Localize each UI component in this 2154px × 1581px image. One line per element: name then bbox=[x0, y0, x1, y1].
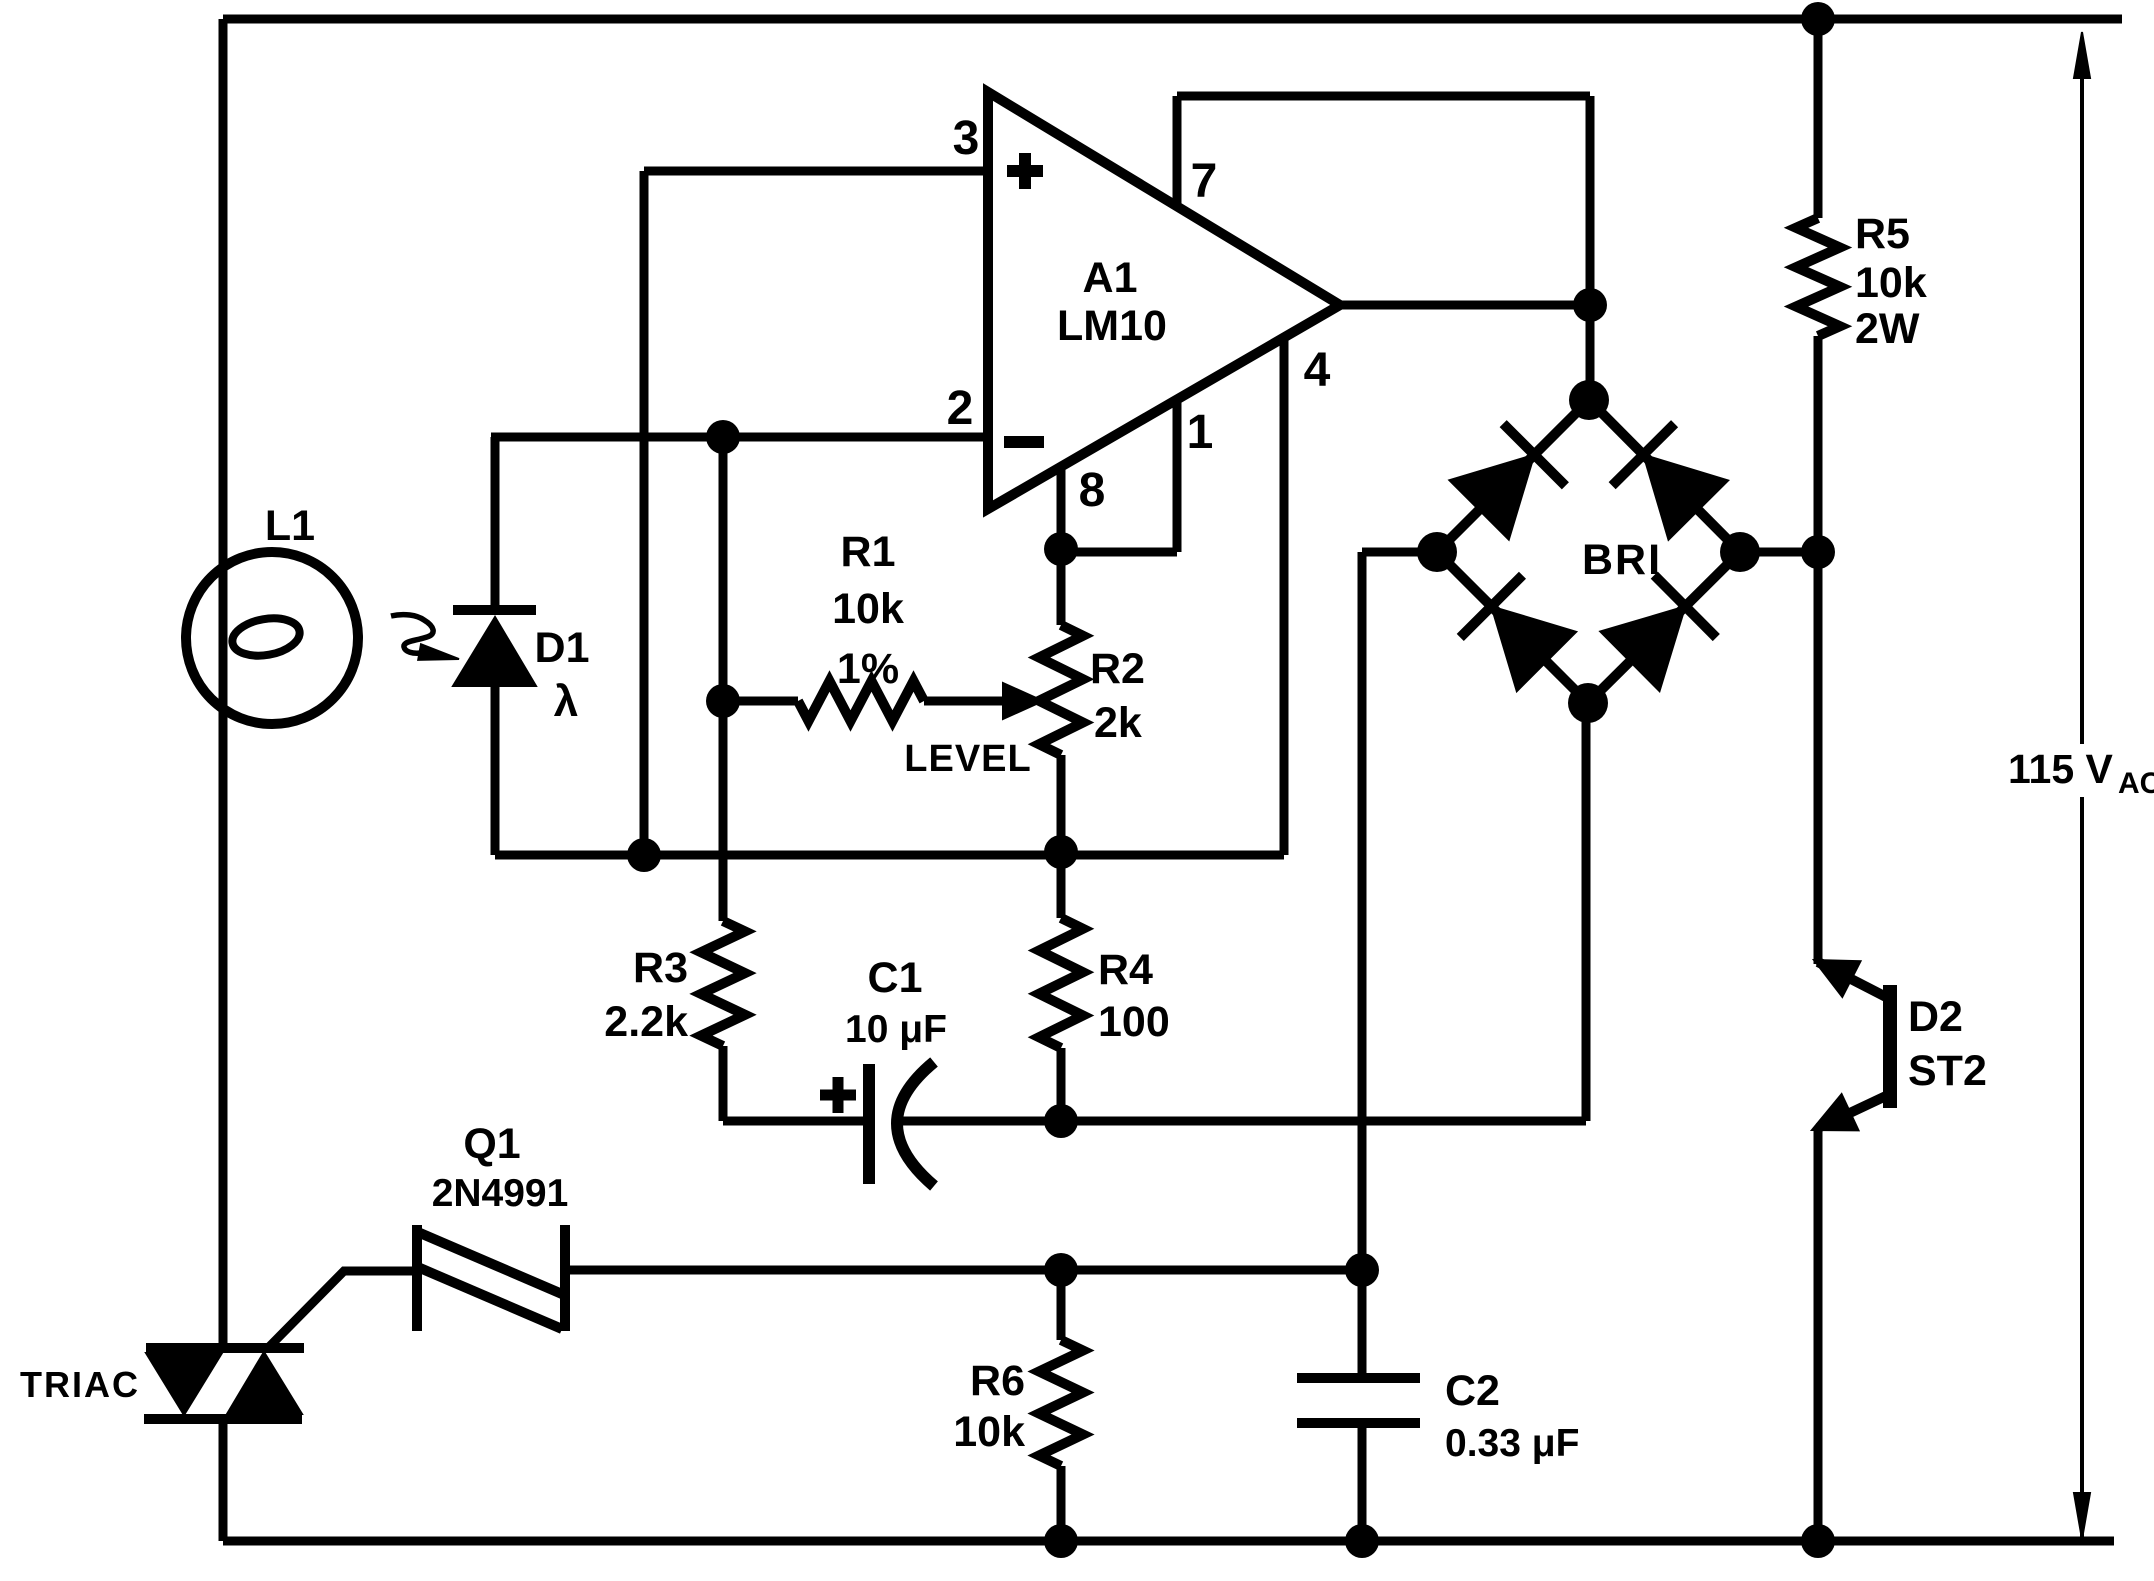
dimension line 115VAC lower bbox=[2074, 797, 2090, 1539]
svg-text:AC: AC bbox=[2118, 767, 2154, 800]
wire feedback right edge bbox=[1586, 96, 1595, 305]
wire D1 bottom lead bbox=[491, 686, 500, 855]
label R2 bbox=[1090, 645, 1145, 693]
op-amp plus input marker bbox=[1007, 153, 1043, 189]
svg-text:R3: R3 bbox=[633, 944, 688, 992]
node bridge/R5 junction bbox=[1801, 535, 1835, 569]
svg-text:λ: λ bbox=[554, 677, 578, 726]
label BRI bbox=[1582, 536, 1662, 584]
wire R5 to D2 bbox=[1814, 552, 1823, 964]
label pin 1 bbox=[1187, 406, 1214, 459]
wire bridge left to C2 column bbox=[1362, 552, 1437, 1270]
svg-text:7: 7 bbox=[1191, 155, 1218, 208]
label D1 bbox=[535, 624, 590, 672]
svg-text:LM10: LM10 bbox=[1057, 302, 1167, 350]
svg-text:100: 100 bbox=[1098, 998, 1170, 1046]
label R3 bbox=[633, 944, 688, 992]
svg-text:LEVEL: LEVEL bbox=[904, 738, 1031, 780]
svg-text:0.33 μF: 0.33 μF bbox=[1445, 1422, 1579, 1465]
resistor R6 bbox=[1039, 1270, 1083, 1541]
node gate/C2 junction bbox=[1345, 1253, 1379, 1287]
node top rail / R5 junction bbox=[1801, 2, 1835, 36]
resistor R5 bbox=[1796, 19, 1840, 552]
svg-text:A1: A1 bbox=[1083, 254, 1138, 302]
wire bridge right to R5 column bbox=[1740, 548, 1818, 557]
resistor R4 bbox=[1039, 852, 1083, 1121]
label Q1 bbox=[463, 1120, 520, 1168]
node R6 bottom rail junction bbox=[1044, 1524, 1078, 1558]
label pin 4 bbox=[1304, 344, 1331, 397]
label C1 value 10uF bbox=[845, 1008, 947, 1051]
label R5 power 2W bbox=[1855, 305, 1920, 353]
svg-text:R1: R1 bbox=[841, 528, 896, 576]
dimension line 115VAC upper bbox=[2074, 32, 2090, 744]
svg-text:R6: R6 bbox=[970, 1357, 1025, 1405]
svg-text:D2: D2 bbox=[1908, 993, 1963, 1041]
wire pin 8 stub bbox=[1057, 467, 1066, 549]
lamp L1 bbox=[186, 552, 358, 724]
switch D2 ST2 bbox=[1812, 960, 1897, 1130]
photodiode D1 bbox=[453, 610, 536, 686]
wire pin 3 vertical drop bbox=[640, 171, 649, 855]
svg-text:1%: 1% bbox=[837, 645, 899, 693]
label R2 value 2k bbox=[1094, 699, 1142, 747]
label D2 bbox=[1908, 993, 1963, 1041]
label R4 value 100 bbox=[1098, 998, 1170, 1046]
label TRIAC bbox=[20, 1364, 140, 1405]
svg-text:10k: 10k bbox=[953, 1408, 1025, 1456]
svg-text:R5: R5 bbox=[1855, 210, 1910, 258]
label R6 bbox=[970, 1357, 1025, 1405]
label pin 7 bbox=[1191, 155, 1218, 208]
svg-text:L1: L1 bbox=[265, 502, 315, 550]
label LM10 bbox=[1057, 302, 1167, 350]
node bridge left vertex bbox=[1417, 532, 1457, 572]
node C1/R4 junction bbox=[1044, 1104, 1078, 1138]
wire pin 7 stub bbox=[1173, 96, 1182, 206]
label R1 bbox=[841, 528, 896, 576]
wire R1 wiper lead bbox=[924, 697, 1014, 706]
svg-text:C1: C1 bbox=[868, 954, 923, 1002]
svg-text:C2: C2 bbox=[1445, 1367, 1500, 1415]
label lambda bbox=[554, 677, 578, 726]
wire pin 3 horizontal bbox=[644, 167, 990, 176]
label R5 bbox=[1855, 210, 1910, 258]
label D2 type ST2 bbox=[1908, 1047, 1987, 1095]
wire C1 right lead bbox=[903, 1117, 1061, 1126]
svg-text:10k: 10k bbox=[832, 585, 904, 633]
node R6 top junction bbox=[1044, 1253, 1078, 1287]
svg-text:D1: D1 bbox=[535, 624, 590, 672]
node R2 bottom junction bbox=[1044, 835, 1078, 869]
svg-text:4: 4 bbox=[1304, 344, 1331, 397]
svg-text:10k: 10k bbox=[1855, 259, 1927, 307]
wire feedback top bbox=[1177, 92, 1590, 101]
label Q1 type 2N4991 bbox=[432, 1172, 569, 1215]
switch Q1 2N4991 bbox=[417, 1225, 565, 1331]
wire left rail below TRIAC bbox=[219, 1418, 228, 1541]
label L1 bbox=[265, 502, 315, 550]
svg-text:ST2: ST2 bbox=[1908, 1047, 1987, 1095]
svg-text:8: 8 bbox=[1079, 464, 1106, 517]
resistor R2 potentiometer bbox=[1039, 549, 1083, 852]
svg-text:BRI: BRI bbox=[1582, 536, 1662, 584]
capacitor C1 bbox=[869, 1062, 934, 1186]
wire output down to bridge bbox=[1586, 305, 1595, 400]
wire triac gate bbox=[266, 1271, 417, 1350]
wire left rail (top section to lamp and triac) bbox=[219, 19, 228, 1350]
wire D2 to bottom rail bbox=[1814, 1128, 1823, 1541]
label C2 value 0.33uF bbox=[1445, 1422, 1579, 1465]
label R5 value 10k bbox=[1855, 259, 1927, 307]
wire op-amp output bbox=[1340, 301, 1590, 310]
wire top supply rail bbox=[223, 15, 2122, 24]
node C2 bottom rail junction bbox=[1345, 1524, 1379, 1558]
svg-text:10 μF: 10 μF bbox=[845, 1008, 947, 1051]
label C2 bbox=[1445, 1367, 1500, 1415]
node R1 left junction bbox=[706, 684, 740, 718]
svg-text:2W: 2W bbox=[1855, 305, 1920, 353]
svg-text:1: 1 bbox=[1187, 406, 1214, 459]
wire R3 bottom lead bbox=[719, 1046, 728, 1121]
bridge diode bottom-right bbox=[1588, 552, 1740, 703]
svg-text:Q1: Q1 bbox=[463, 1120, 520, 1168]
node bridge top vertex bbox=[1569, 380, 1609, 420]
capacitor C1 plus sign bbox=[820, 1077, 856, 1113]
wire bottom rail bbox=[223, 1537, 2114, 1546]
node output junction bbox=[1573, 288, 1607, 322]
node pin8 junction bbox=[1044, 532, 1078, 566]
label A1 bbox=[1083, 254, 1138, 302]
wire C1 net to bridge bottom bbox=[1061, 703, 1586, 1121]
svg-text:3: 3 bbox=[953, 112, 980, 165]
op-amp A1 LM10 bbox=[988, 92, 1340, 509]
svg-text:2N4991: 2N4991 bbox=[432, 1172, 569, 1215]
svg-text:R4: R4 bbox=[1098, 946, 1153, 994]
svg-text:TRIAC: TRIAC bbox=[20, 1364, 140, 1405]
wire gate line bbox=[565, 1266, 1362, 1275]
label pin 2 bbox=[947, 382, 974, 435]
bridge diode bottom-left bbox=[1437, 552, 1588, 703]
triac bbox=[144, 1348, 304, 1419]
bridge diode top-left bbox=[1437, 400, 1589, 552]
node D2 bottom rail junction bbox=[1801, 1524, 1835, 1558]
svg-text:115 V: 115 V bbox=[2008, 746, 2114, 792]
pot wiper arrow into R2 bbox=[1003, 683, 1043, 719]
label R1 value 10k bbox=[832, 585, 904, 633]
svg-text:2.2k: 2.2k bbox=[604, 998, 688, 1046]
label pin 8 bbox=[1079, 464, 1106, 517]
label C1 bbox=[868, 954, 923, 1002]
resistor R3 bbox=[701, 921, 745, 1046]
label 115 VAC bbox=[2008, 746, 2154, 800]
node pin3 column junction bbox=[627, 838, 661, 872]
node pin2/R1 junction bbox=[706, 420, 740, 454]
wire pin 2 net: D1 top lead bbox=[491, 437, 500, 606]
wire pin 1 to pin 8 node bbox=[1061, 548, 1177, 557]
label R1 tolerance 1% bbox=[837, 645, 899, 693]
node bridge bottom vertex bbox=[1568, 683, 1608, 723]
light arrow into D1 bbox=[391, 615, 459, 660]
wire pin 2 horizontal bbox=[491, 433, 990, 442]
wire mid net horizontal bbox=[495, 851, 1284, 860]
op-amp minus input marker bbox=[1004, 436, 1044, 448]
label LEVEL bbox=[904, 738, 1031, 780]
svg-text:R2: R2 bbox=[1090, 645, 1145, 693]
wire pin 4 drop bbox=[1280, 336, 1289, 855]
wire R3 column upper bbox=[719, 701, 728, 921]
bridge diode top-right bbox=[1589, 400, 1740, 552]
wire R1 left lead bbox=[723, 697, 798, 706]
wire C1 left lead bbox=[723, 1117, 866, 1126]
label R6 value 10k bbox=[953, 1408, 1025, 1456]
svg-text:2k: 2k bbox=[1094, 699, 1142, 747]
svg-text:2: 2 bbox=[947, 382, 974, 435]
wire pin 1 stub bbox=[1173, 400, 1182, 552]
label pin 3 bbox=[953, 112, 980, 165]
wire R1 column bbox=[719, 437, 728, 701]
node bridge right vertex bbox=[1720, 532, 1760, 572]
capacitor C2 bbox=[1297, 1270, 1420, 1541]
label R3 value 2.2k bbox=[604, 998, 688, 1046]
resistor R1 bbox=[798, 681, 924, 721]
label R4 bbox=[1098, 946, 1153, 994]
